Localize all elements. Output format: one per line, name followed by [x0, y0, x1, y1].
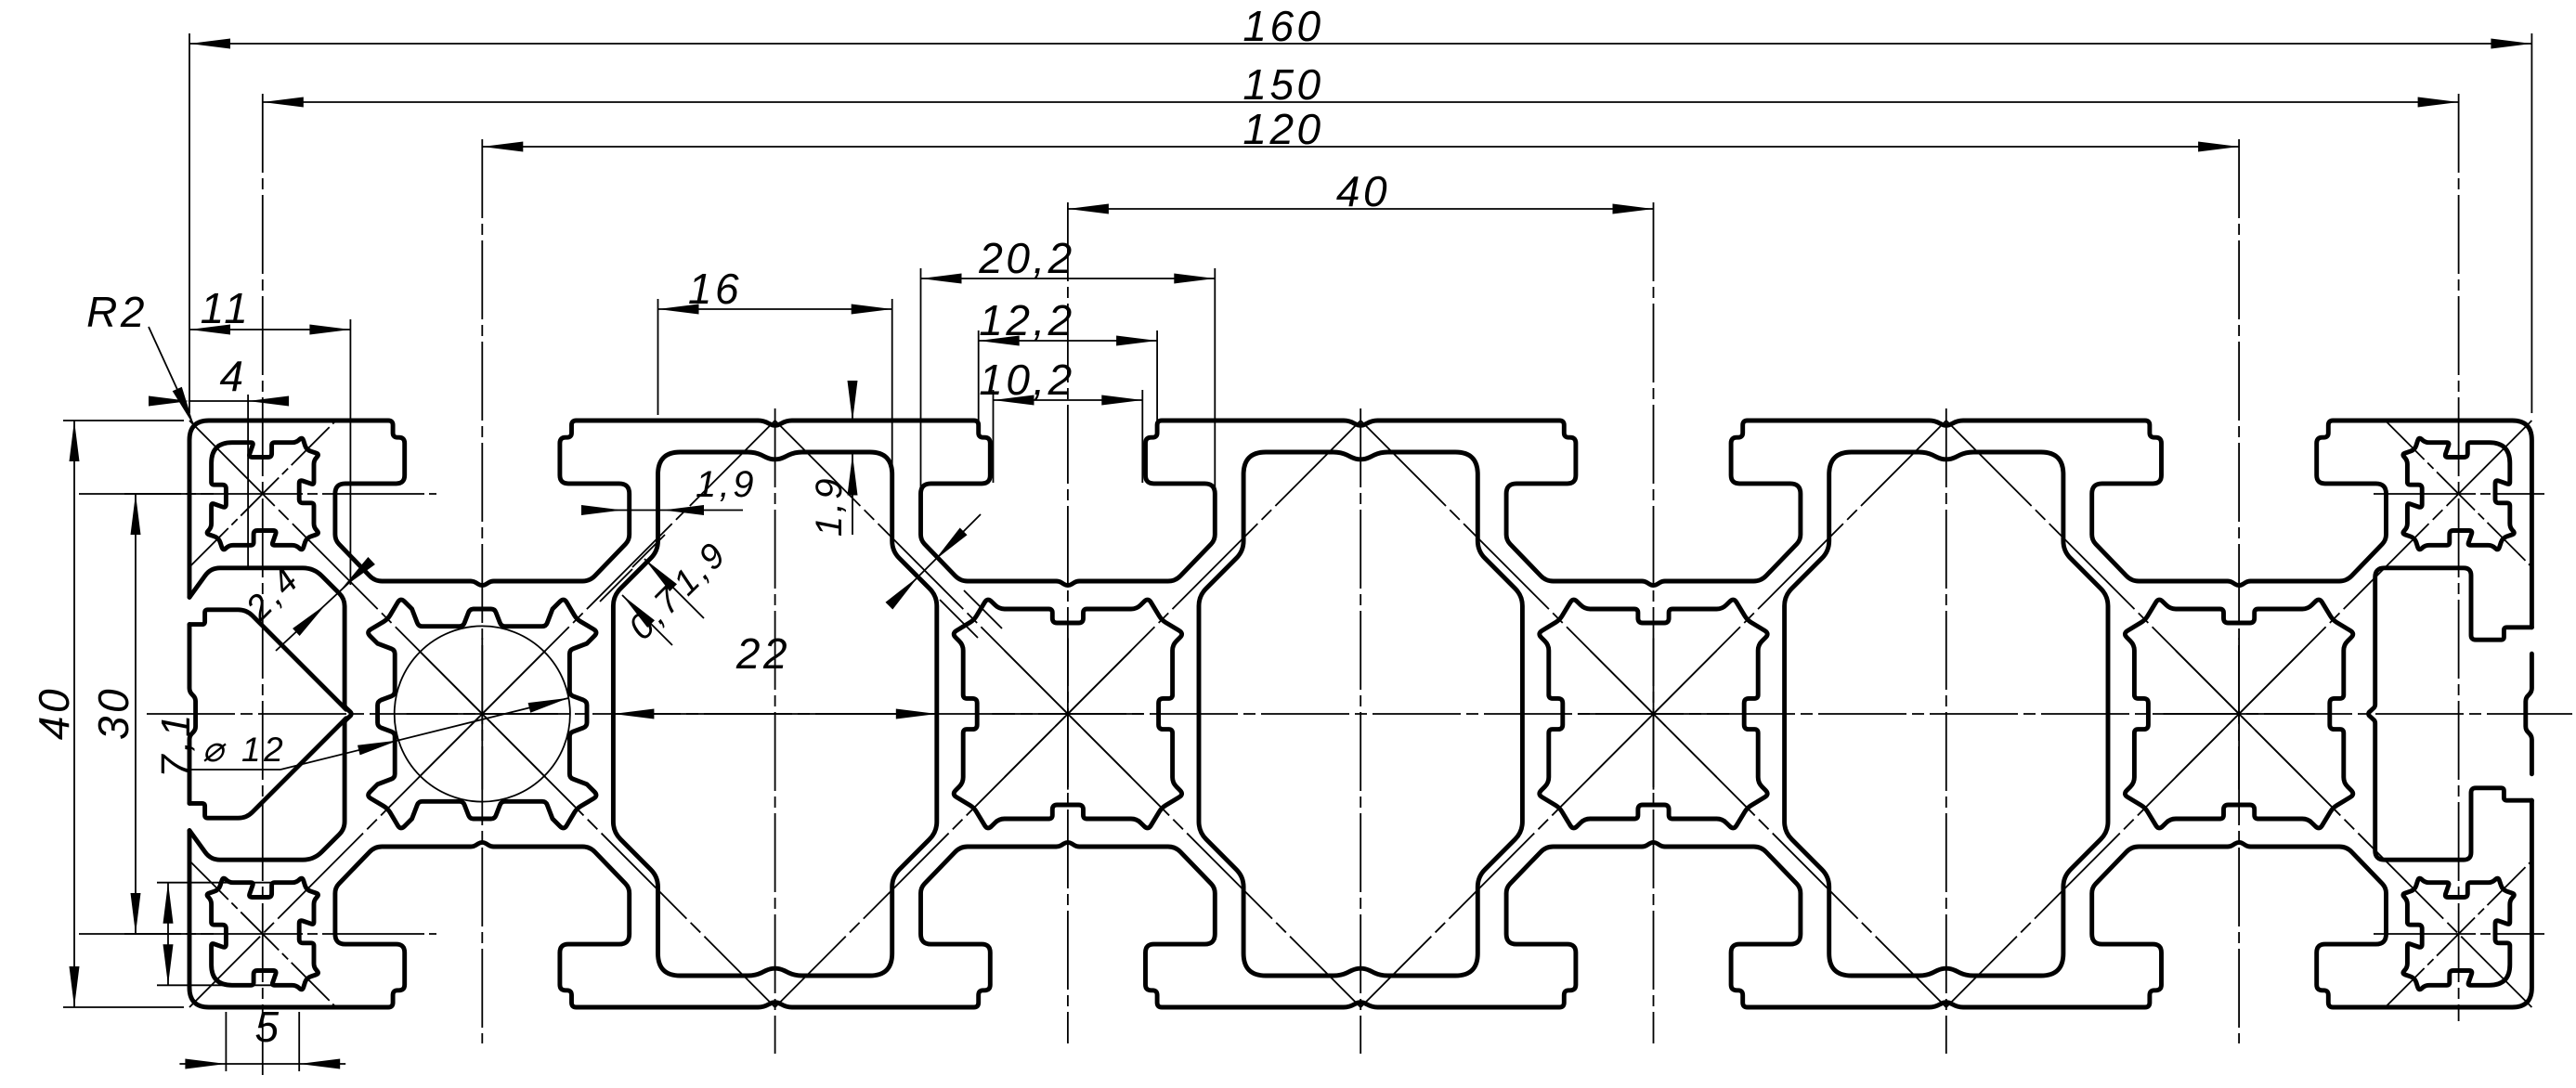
- svg-text:150: 150: [1242, 60, 1323, 109]
- svg-text:30: 30: [89, 686, 137, 740]
- svg-text:120: 120: [1242, 105, 1323, 153]
- svg-text:11: 11: [201, 284, 252, 332]
- svg-text:16: 16: [688, 265, 742, 313]
- svg-text:12,2: 12,2: [979, 296, 1075, 344]
- svg-text:40: 40: [30, 686, 78, 740]
- svg-text:R2: R2: [86, 288, 148, 336]
- svg-text:12: 12: [241, 731, 286, 769]
- svg-text:4: 4: [219, 352, 246, 400]
- svg-text:1,9: 1,9: [809, 475, 850, 537]
- svg-text:⌀: ⌀: [202, 731, 227, 770]
- svg-text:160: 160: [1242, 2, 1323, 50]
- svg-text:1,9: 1,9: [696, 464, 757, 505]
- svg-text:5: 5: [254, 1003, 281, 1051]
- svg-text:20,2: 20,2: [978, 234, 1075, 282]
- svg-text:40: 40: [1336, 167, 1390, 215]
- svg-text:22: 22: [735, 629, 790, 678]
- svg-text:7,1: 7,1: [153, 711, 199, 778]
